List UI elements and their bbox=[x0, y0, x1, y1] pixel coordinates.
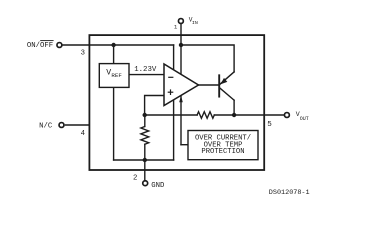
junction dot collector-output node bbox=[232, 113, 236, 117]
svg-text:OUT: OUT bbox=[300, 116, 309, 122]
wire op-amp output to transistor base bbox=[199, 84, 218, 86]
protection arrow into op-amp bbox=[179, 96, 183, 103]
wire ON/OFF vertical drop (passes behind op-amp) bbox=[173, 45, 175, 160]
pin 5 terminal VOUT bbox=[284, 113, 289, 118]
junction dot VIN rail bbox=[179, 43, 183, 47]
junction dot ON/OFF-VREF bbox=[111, 43, 115, 47]
transistor Q1 collector bbox=[220, 88, 234, 100]
op-amp U1 (error amplifier) bbox=[164, 64, 199, 106]
svg-text:1.23V: 1.23V bbox=[134, 66, 157, 74]
wire VREF bottom drop bbox=[113, 87, 115, 160]
wire feedback to op-amp non-inverting input bbox=[145, 96, 164, 116]
junction dot feedback node bbox=[143, 113, 147, 117]
wire ON/OFF pin to internal corner bbox=[62, 44, 173, 46]
junction dot ground rail bbox=[143, 158, 147, 162]
wire R1 to collector node bbox=[214, 114, 234, 116]
protection box bbox=[188, 131, 258, 160]
pin 2 terminal GND bbox=[143, 181, 148, 186]
resistor R2 (vertical) bbox=[141, 127, 149, 145]
pin 1 terminal VIN bbox=[178, 19, 183, 24]
wire VREF top drop bbox=[113, 45, 115, 64]
resistor R2 bottom lead bbox=[144, 144, 146, 160]
wire output rail to VOUT pin bbox=[234, 114, 284, 116]
wire VIN vertical (passes behind op-amp, into protection arrow line) bbox=[180, 24, 182, 144]
VREF block bbox=[99, 64, 129, 88]
resistor R2 (vertical) top lead bbox=[144, 115, 146, 127]
svg-text:4: 4 bbox=[81, 130, 86, 138]
wire VREF output to op-amp inverting input bbox=[129, 74, 164, 76]
transistor Q1 emitter arrow bbox=[220, 78, 227, 85]
svg-text:ON/OFF: ON/OFF bbox=[27, 42, 53, 50]
pin 3 terminal ON/OFF bbox=[57, 43, 62, 48]
svg-text:5: 5 bbox=[267, 121, 272, 129]
transistor Q1 base bar bbox=[218, 75, 220, 96]
svg-text:PROTECTION: PROTECTION bbox=[201, 148, 244, 156]
pin 4 terminal N/C bbox=[59, 123, 64, 128]
svg-text:N/C: N/C bbox=[39, 123, 53, 131]
svg-text:1: 1 bbox=[174, 24, 178, 31]
op-amp minus sign bbox=[169, 76, 173, 78]
svg-text:IN: IN bbox=[192, 20, 198, 26]
op-amp plus sign bbox=[168, 90, 172, 94]
wire GND pin drop bbox=[144, 160, 146, 180]
IC outline box bbox=[89, 35, 264, 170]
ground rail bbox=[114, 159, 174, 161]
wire VIN rail to emitter riser bbox=[181, 45, 234, 72]
svg-text:3: 3 bbox=[81, 49, 85, 57]
resistor R1 (horizontal) bbox=[197, 112, 214, 119]
svg-text:REF: REF bbox=[111, 72, 122, 79]
wire protection box to arrow line bbox=[181, 144, 188, 146]
transistor Q1 emitter bbox=[220, 72, 234, 84]
wire feedback node to R1 bbox=[145, 114, 198, 116]
svg-text:GND: GND bbox=[151, 182, 165, 190]
wire N/C stub bbox=[65, 124, 89, 126]
svg-text:2: 2 bbox=[133, 174, 137, 182]
svg-text:DS012078-1: DS012078-1 bbox=[269, 189, 310, 197]
wire collector riser bbox=[233, 100, 235, 115]
